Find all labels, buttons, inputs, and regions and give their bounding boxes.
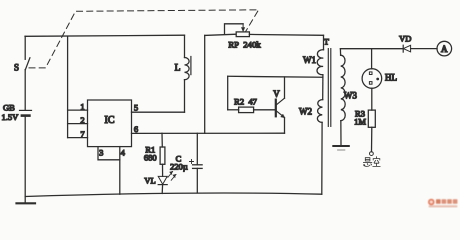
wire R1 branch from pin6 line (161, 133, 163, 147)
svg-text:W1: W1 (303, 55, 316, 65)
diode VD (399, 33, 411, 52)
svg-text:VL: VL (144, 176, 155, 186)
wire pin 5 stub to inductor (132, 111, 185, 113)
wire R2 left lead (228, 109, 239, 111)
wire R1 to LED (162, 164, 164, 176)
svg-text:680: 680 (144, 152, 157, 162)
watermark logo bottom right (428, 199, 457, 208)
wire pin 6 long horizontal (132, 132, 285, 134)
neon lamp HL (362, 69, 397, 89)
pin number 4 (121, 148, 126, 158)
ground (333, 146, 349, 150)
svg-text:IC: IC (105, 115, 115, 126)
svg-text:L: L (175, 63, 181, 73)
wire left vertical lower (battery negative to bottom rail) (24, 116, 26, 203)
pin number 1 (80, 101, 84, 111)
transformer core (328, 49, 331, 127)
switch S (14, 58, 30, 73)
svg-text:5: 5 (134, 103, 138, 113)
wire collector to tap line (284, 77, 286, 98)
wire R2 to transistor base (254, 109, 276, 111)
wire VD to meter (411, 48, 437, 50)
svg-text:1: 1 (80, 101, 84, 111)
svg-text:T: T (324, 36, 330, 46)
svg-text:1M: 1M (354, 117, 366, 127)
capacitor C 220u electrolytic (170, 153, 202, 171)
label xuankong (floating) character kong (373, 157, 380, 167)
pin number 2 (80, 115, 84, 125)
wire bottom rail (25, 193, 322, 197)
wire top rail left section (25, 35, 185, 36)
resistor R1 680 (144, 144, 165, 164)
wire left vertical to battery (24, 70, 26, 111)
svg-text:GB: GB (3, 103, 15, 113)
svg-text:7: 7 (80, 129, 84, 139)
wire secondary top rail (W3 to VD) (340, 48, 403, 50)
transformer winding W2 (299, 100, 323, 123)
inductor L core bar (190, 57, 192, 75)
wire HL branch vertical (371, 49, 373, 69)
svg-text:6: 6 (134, 124, 138, 134)
svg-text:S: S (14, 63, 19, 73)
floating terminal node (370, 152, 374, 156)
wire W1/W2 junction segment (322, 75, 324, 100)
wire C branch from pin6 line (196, 133, 198, 165)
wire W2 bottom to rail (321, 122, 323, 194)
svg-text:W2: W2 (299, 106, 312, 116)
ammeter A (437, 41, 452, 56)
IC U1 box (88, 100, 132, 147)
potentiometer RP wiper arrow and return wire (225, 24, 245, 35)
wire pin 1 stub (68, 109, 88, 111)
wire C to bottom rail (196, 168, 198, 193)
wire tap line (collector node) to W1/W2 junction (228, 75, 323, 78)
svg-text:220µ: 220µ (170, 161, 188, 171)
wire RP to transformer W1 top (249, 33, 323, 36)
svg-text:HL: HL (385, 73, 397, 83)
wire W3 bottom to ground (340, 121, 342, 145)
svg-text:2: 2 (80, 115, 84, 125)
svg-text:W3: W3 (344, 90, 357, 100)
pin number 5 (134, 103, 138, 113)
wire R2 section vertical from tap line (227, 76, 229, 110)
wire IC supply vertical (pins 1,2,7 tie) (67, 36, 69, 137)
wire left vertical upper (battery positive feed) (24, 36, 26, 59)
transformer winding W1 (303, 35, 324, 74)
transistor V (273, 89, 285, 118)
LED VL (144, 172, 176, 186)
pin number 3 (99, 148, 103, 158)
pin number 7 (80, 129, 84, 139)
battery negative end bar (17, 202, 36, 204)
label xuankong (floating) character xuan (363, 158, 371, 167)
wire LED to bottom rail (161, 185, 163, 194)
svg-text:3: 3 (99, 148, 103, 158)
wire RP feed left segment (205, 34, 237, 35)
svg-text:V: V (273, 89, 280, 99)
pin number 6 (134, 124, 138, 134)
transformer T label (324, 36, 330, 46)
wire pin 7 stub (68, 137, 88, 139)
wire HL to R3 (371, 88, 373, 110)
svg-text:R2 47: R2 47 (234, 96, 257, 106)
wire pin 3 loop to pin 4 (98, 147, 120, 160)
svg-text:1.5V: 1.5V (2, 112, 20, 122)
wire RP section left vertical (204, 35, 206, 133)
svg-text:VD: VD (399, 33, 411, 43)
transformer winding W3 (340, 49, 357, 121)
wire R3 to floating terminal (371, 127, 373, 151)
resistor R2 47 (234, 96, 257, 112)
battery GB 1.5V (2, 103, 32, 123)
wire pin 2 stub (68, 123, 88, 125)
svg-text:A: A (441, 44, 448, 54)
wire emitter down and to pin6 line (284, 118, 286, 133)
inductor L (175, 35, 190, 112)
dashed mechanical link S to RP (29, 10, 259, 68)
wire pin 4 to bottom rail (119, 147, 121, 195)
svg-text:RP 240k: RP 240k (228, 39, 261, 49)
resistor R3 1M (354, 109, 375, 128)
potentiometer RP 240k (228, 32, 261, 49)
svg-text:4: 4 (121, 148, 126, 158)
